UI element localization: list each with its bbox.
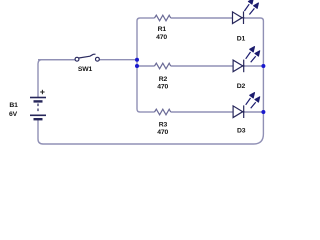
- wire: right vertical bus: [262, 21, 264, 134]
- svg-text:D2: D2: [237, 83, 246, 90]
- wire: row1 resistor R1 to LED D1: [171, 17, 233, 19]
- svg-text:SW1: SW1: [78, 66, 93, 73]
- wire: row3 bus to resistor R3: [140, 111, 155, 113]
- wire: row3 resistor R3 to LED D3: [171, 111, 233, 113]
- svg-text:R2: R2: [159, 76, 168, 83]
- svg-text:470: 470: [157, 129, 168, 136]
- wire: switch row segment from SW1 right contact to bus: [100, 59, 138, 61]
- junction dot: row2 on right bus: [261, 64, 265, 68]
- wire: row2 bus to resistor R2: [137, 65, 155, 67]
- wire: battery bottom lead down and corner into bottom wire: [38, 120, 43, 144]
- junction dot: row3 on right bus: [261, 110, 265, 114]
- resistor R2: [155, 63, 171, 69]
- LED D1: [233, 11, 245, 24]
- LED D2 emission arrows: [246, 47, 260, 63]
- battery B1 plus sign: [40, 90, 44, 94]
- svg-text:470: 470: [156, 34, 167, 41]
- junction dot: row2 on left bus: [135, 64, 139, 68]
- wire: left distribution bus vertical: [137, 18, 140, 112]
- wire: switch row segment from left corner to SW1 left contact: [38, 59, 75, 61]
- battery B1: [30, 98, 46, 120]
- resistor R1: [155, 15, 171, 21]
- wire: top-right corner from D1 row into right bus: [244, 18, 264, 21]
- wire: left vertical from top corner down to battery top: [38, 60, 75, 97]
- wire: row1 bus corner to resistor R1: [140, 17, 155, 19]
- svg-text:B1: B1: [9, 102, 18, 109]
- LED D1 emission arrows: [244, 0, 258, 14]
- svg-text:D1: D1: [237, 35, 246, 42]
- wire: row2 resistor R2 to LED D2: [171, 65, 233, 67]
- LED D2: [233, 60, 244, 73]
- svg-text:470: 470: [157, 83, 168, 90]
- resistor R3: [155, 109, 171, 115]
- junction dot: switch wire on left bus: [135, 58, 139, 62]
- switch SW1: [75, 54, 99, 61]
- svg-text:R3: R3: [159, 121, 168, 128]
- wire: bottom horizontal to right side with large rounded corner: [43, 134, 263, 144]
- wire: row2 LED D2 to right bus: [244, 65, 264, 67]
- LED D3: [233, 105, 244, 118]
- svg-text:R1: R1: [158, 26, 167, 33]
- wire: row3 LED D3 to right bus: [244, 111, 264, 113]
- svg-text:6V: 6V: [9, 111, 18, 118]
- LED D3 emission arrows: [246, 93, 260, 109]
- svg-text:D3: D3: [237, 128, 246, 135]
